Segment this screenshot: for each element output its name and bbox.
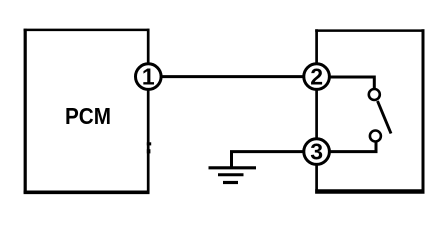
svg-text:2: 2 bbox=[310, 64, 323, 90]
wire terminal3 to ground bbox=[232, 152, 304, 167]
switch blade (open) bbox=[378, 101, 392, 134]
label PCM bbox=[65, 103, 111, 129]
terminal 3 bbox=[304, 139, 330, 165]
switch top contact bbox=[369, 89, 380, 100]
PCM module box U1 bbox=[24, 29, 150, 194]
terminal 2 bbox=[304, 64, 330, 90]
svg-text:PCM: PCM bbox=[65, 103, 111, 129]
svg-text:1: 1 bbox=[142, 64, 155, 90]
scan speckle on PCM right edge bbox=[147, 142, 151, 153]
switch assembly box bbox=[315, 29, 424, 193]
ground symbol bbox=[209, 168, 257, 183]
wire terminal3 to switch bottom contact bbox=[330, 142, 376, 152]
svg-text:3: 3 bbox=[310, 139, 323, 165]
terminal 1 bbox=[136, 64, 162, 90]
switch bottom contact bbox=[370, 131, 381, 142]
wire terminal2 to switch top contact bbox=[330, 77, 374, 89]
wire terminal1 to terminal2 bbox=[150, 75, 316, 78]
